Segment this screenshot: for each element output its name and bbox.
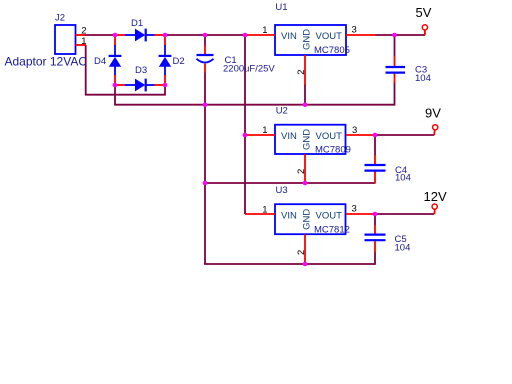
- svg-text:MC7805: MC7805: [314, 45, 350, 56]
- capacitor C1: [197, 45, 214, 73]
- wire 5V output node U1 pin3 to port: [375, 34, 425, 36]
- svg-text:3: 3: [352, 204, 357, 215]
- svg-text:1: 1: [81, 36, 86, 47]
- junction bridge bottom-right: [163, 83, 168, 88]
- capacitor C4: [365, 155, 386, 184]
- svg-text:9V: 9V: [425, 105, 441, 120]
- U2 pin 3: [346, 134, 376, 136]
- svg-text:104: 104: [395, 173, 411, 184]
- svg-text:2: 2: [296, 169, 307, 174]
- svg-text:104: 104: [415, 73, 431, 84]
- junction C3 branch: [392, 33, 397, 38]
- svg-text:1: 1: [262, 204, 267, 215]
- wire C5 bottom stub: [374, 252, 376, 265]
- junction U2 pin2 on GND rail 2: [303, 181, 308, 186]
- svg-text:VIN: VIN: [281, 131, 297, 142]
- junction U2 VIN branch: [243, 133, 248, 138]
- wire GND trunk C1 to rail 2: [204, 104, 206, 183]
- wire 12V output node U3 pin3 to port: [375, 213, 434, 215]
- wire C5 top stub: [374, 214, 376, 226]
- diode D3: [115, 79, 165, 92]
- U3 pin 3: [346, 213, 376, 215]
- svg-text:U1: U1: [275, 2, 287, 13]
- connector J2: [55, 25, 76, 54]
- svg-text:GND: GND: [302, 209, 313, 230]
- svg-text:5V: 5V: [416, 5, 432, 20]
- svg-text:MC7812: MC7812: [314, 224, 350, 235]
- svg-text:D2: D2: [173, 56, 185, 67]
- junction bridge bottom-left: [113, 83, 118, 88]
- wire 9V output node U2 pin3 to port: [375, 134, 434, 136]
- svg-text:2: 2: [81, 25, 86, 36]
- svg-text:1: 1: [262, 25, 267, 36]
- svg-text:3: 3: [352, 24, 357, 35]
- svg-text:Adaptor 12VAC: Adaptor 12VAC: [5, 55, 88, 69]
- port 12V: [432, 204, 437, 214]
- U2 pin 1: [245, 134, 275, 136]
- svg-text:VOUT: VOUT: [316, 31, 343, 42]
- svg-text:3: 3: [352, 125, 357, 136]
- op-amp U1 regulator MC7805: [275, 25, 346, 55]
- junction GND rail 2 branch: [203, 181, 208, 186]
- junction U3 pin2 on GND rail 3: [303, 262, 308, 267]
- svg-text:D4: D4: [94, 56, 106, 67]
- wire U1 pin2 lower segment to GND rail 1: [304, 84, 306, 106]
- wire AC2 loop from J2 pin 1 to bridge bottom-right: [86, 45, 165, 95]
- diode D4: [109, 35, 122, 85]
- diode D2: [159, 35, 172, 85]
- wire AC1 from J2 pin 2 to bridge top-left: [85, 34, 116, 36]
- U3 pin 1: [245, 213, 275, 215]
- wire V+ from bridge top-right to U1 VIN branch: [164, 34, 246, 36]
- junction C1 top: [203, 33, 208, 38]
- wire C4 top stub: [374, 135, 376, 156]
- wire GND rail 1 from bridge V- through C1/U1 pin2 to C3: [115, 82, 395, 105]
- J2 pin 2: [76, 34, 87, 36]
- U1 pin 3: [346, 34, 376, 36]
- port 5V: [422, 25, 427, 36]
- svg-text:2: 2: [296, 250, 307, 255]
- J2 pin 1: [76, 44, 87, 46]
- svg-text:104: 104: [395, 243, 411, 254]
- wire VIN trunk feeding U2 and U3: [244, 35, 246, 215]
- svg-text:2: 2: [296, 70, 307, 75]
- svg-text:D1: D1: [131, 18, 143, 29]
- svg-text:VIN: VIN: [281, 31, 297, 42]
- svg-text:U2: U2: [276, 106, 288, 117]
- junction C5 branch: [373, 212, 378, 217]
- op-amp U3 regulator MC7812: [275, 204, 346, 234]
- capacitor C5: [365, 225, 386, 253]
- svg-text:12V: 12V: [424, 189, 447, 204]
- svg-text:GND: GND: [302, 29, 313, 50]
- wire C3 top stub: [394, 35, 396, 56]
- junction VIN branch: [243, 33, 248, 38]
- U1 pin 2: [304, 55, 306, 85]
- svg-text:D3: D3: [135, 65, 147, 76]
- svg-text:VOUT: VOUT: [316, 210, 343, 221]
- wire GND rail 2: [205, 182, 375, 184]
- diode D1: [115, 29, 165, 42]
- wire GND trunk rail 2 to rail 3: [204, 183, 206, 264]
- junction C4 branch: [373, 133, 378, 138]
- wire GND rail 3: [204, 263, 375, 265]
- svg-text:MC7809: MC7809: [315, 144, 351, 155]
- U1 pin 1: [245, 34, 275, 36]
- U3 pin 2: [304, 234, 306, 264]
- U2 pin 2: [304, 154, 306, 183]
- svg-text:VOUT: VOUT: [316, 131, 343, 142]
- junction C1 bottom on GND rail 1: [203, 102, 208, 107]
- wire C1 bottom stub: [204, 73, 206, 106]
- svg-text:U3: U3: [276, 185, 288, 196]
- svg-text:GND: GND: [302, 129, 313, 150]
- svg-text:2200uF/25V: 2200uF/25V: [223, 63, 275, 74]
- op-amp U2 regulator MC7809: [275, 125, 346, 154]
- junction U1 pin2 on GND rail 1: [303, 102, 308, 107]
- svg-text:1: 1: [262, 125, 267, 136]
- wire C1 top stub: [204, 35, 206, 46]
- capacitor C3: [386, 56, 406, 83]
- junction bridge top-right: [163, 33, 168, 38]
- svg-text:J2: J2: [55, 13, 65, 24]
- junction bridge top-left: [113, 33, 118, 38]
- port 9V: [433, 125, 438, 136]
- svg-text:VIN: VIN: [281, 210, 297, 221]
